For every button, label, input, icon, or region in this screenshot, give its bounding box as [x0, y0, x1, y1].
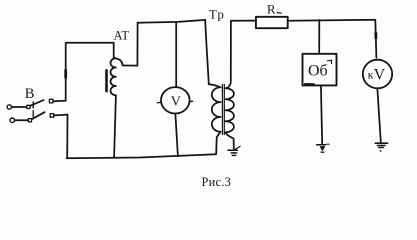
svg-text:V: V — [374, 67, 386, 84]
wire AT tap to LV rail — [116, 23, 137, 66]
wire Ob bottom to ground — [321, 85, 322, 144]
wire throw2 right — [54, 114, 68, 117]
autotransformer AT winding — [110, 57, 115, 95]
ground symbol under kV — [375, 143, 387, 152]
wire kV bottom to ground — [377, 89, 380, 142]
transformer Tr core line 1 — [221, 85, 223, 135]
wire HV rail from R to kV corner — [288, 20, 377, 58]
wire primary top drop — [205, 20, 209, 84]
switch mechanical link (dashed) — [32, 102, 34, 120]
Ob box corner mark — [328, 60, 332, 63]
svg-text:Об: Об — [308, 63, 328, 80]
wire left riser up to AT feed — [66, 43, 114, 101]
resistor R box — [256, 17, 288, 28]
transformer Tr primary winding — [209, 84, 221, 154]
wire bottom rail — [67, 154, 217, 158]
switch blade 2 — [32, 112, 45, 119]
wire secondary top to R — [231, 20, 256, 22]
wire AT winding bottom to bottom rail — [114, 95, 116, 157]
autotransformer AT core bar — [105, 70, 108, 91]
Ob box bottom-left smudge — [305, 83, 314, 86]
wire V meter branch from rail — [175, 22, 177, 86]
kilovoltmeter kV circle — [363, 60, 392, 89]
svg-text:Рис.3: Рис.3 — [202, 175, 232, 189]
svg-text:В: В — [25, 86, 35, 102]
R label tail mark — [277, 12, 281, 15]
svg-text:R: R — [267, 2, 276, 17]
wire throw1 right — [53, 100, 65, 103]
switch B input terminal 2 — [10, 118, 15, 123]
transformer Tr core line 2 — [223, 85, 225, 135]
switch blade 1 — [30, 100, 43, 106]
test object Ob box — [303, 54, 337, 86]
wire V meter bottom to rail — [175, 114, 178, 156]
voltmeter V circle — [161, 87, 190, 113]
ground symbol under transformer secondary — [228, 146, 240, 155]
switch throw contact 1 — [49, 99, 53, 103]
wire Ob branch from HV rail — [318, 20, 320, 54]
svg-text:V: V — [171, 95, 181, 110]
switch pole contact 2 — [28, 119, 31, 122]
switch throw contact 2 — [50, 114, 54, 118]
switch B input terminal 1 — [7, 105, 11, 109]
wire terminal1 to pole1 — [12, 106, 27, 108]
svg-text:АТ: АТ — [114, 29, 130, 43]
ink blob on kV drop wire — [374, 33, 377, 38]
wire LV top rail — [138, 20, 206, 23]
ink blob on left riser — [64, 70, 67, 77]
ground symbol under Ob — [317, 144, 329, 152]
switch pole contact 1 — [27, 105, 30, 108]
wire switch bottom drop to bottom rail — [66, 115, 68, 158]
svg-text:Тр: Тр — [209, 7, 225, 22]
voltmeter right terminal tick — [190, 100, 192, 102]
transformer Tr secondary winding — [225, 21, 234, 149]
wire terminal2 to pole2 — [15, 119, 28, 121]
voltmeter left terminal tick — [157, 101, 160, 103]
